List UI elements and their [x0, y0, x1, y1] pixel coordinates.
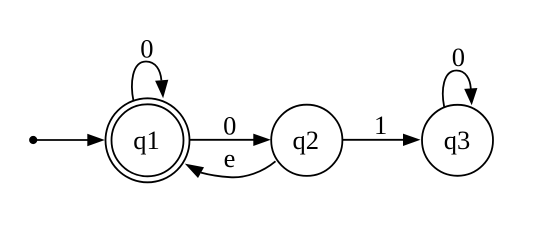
- arrowhead q2 to q3: [403, 134, 421, 146]
- state q1 inner circle: [112, 104, 184, 176]
- svg-text:q3: q3: [444, 125, 471, 155]
- self-loop on q3: [443, 71, 471, 108]
- wire start to q1: [37, 139, 88, 141]
- wire q1 to q2: [189, 139, 253, 141]
- arrowhead q1 to q2: [253, 134, 270, 146]
- state q1 outer circle (accepting): [106, 98, 190, 182]
- arrowhead q2 to q1: [185, 164, 204, 178]
- svg-text:q1: q1: [133, 125, 160, 155]
- arrowhead start to q1: [87, 134, 105, 146]
- state q3 circle: [422, 105, 493, 176]
- svg-text:e: e: [224, 143, 236, 173]
- wire q2 to q1 (curved): [201, 161, 276, 177]
- svg-text:0: 0: [223, 110, 236, 140]
- self-loop on q1: [132, 62, 161, 102]
- start dot: [30, 136, 37, 143]
- arrowhead self-loop q1: [155, 80, 168, 99]
- svg-text:0: 0: [140, 33, 153, 63]
- svg-text:0: 0: [452, 42, 465, 72]
- svg-text:1: 1: [374, 110, 387, 140]
- wire q2 to q3: [342, 139, 403, 141]
- arrowhead self-loop q3: [464, 88, 477, 105]
- state q2 circle: [271, 105, 342, 176]
- svg-text:q2: q2: [293, 125, 320, 155]
